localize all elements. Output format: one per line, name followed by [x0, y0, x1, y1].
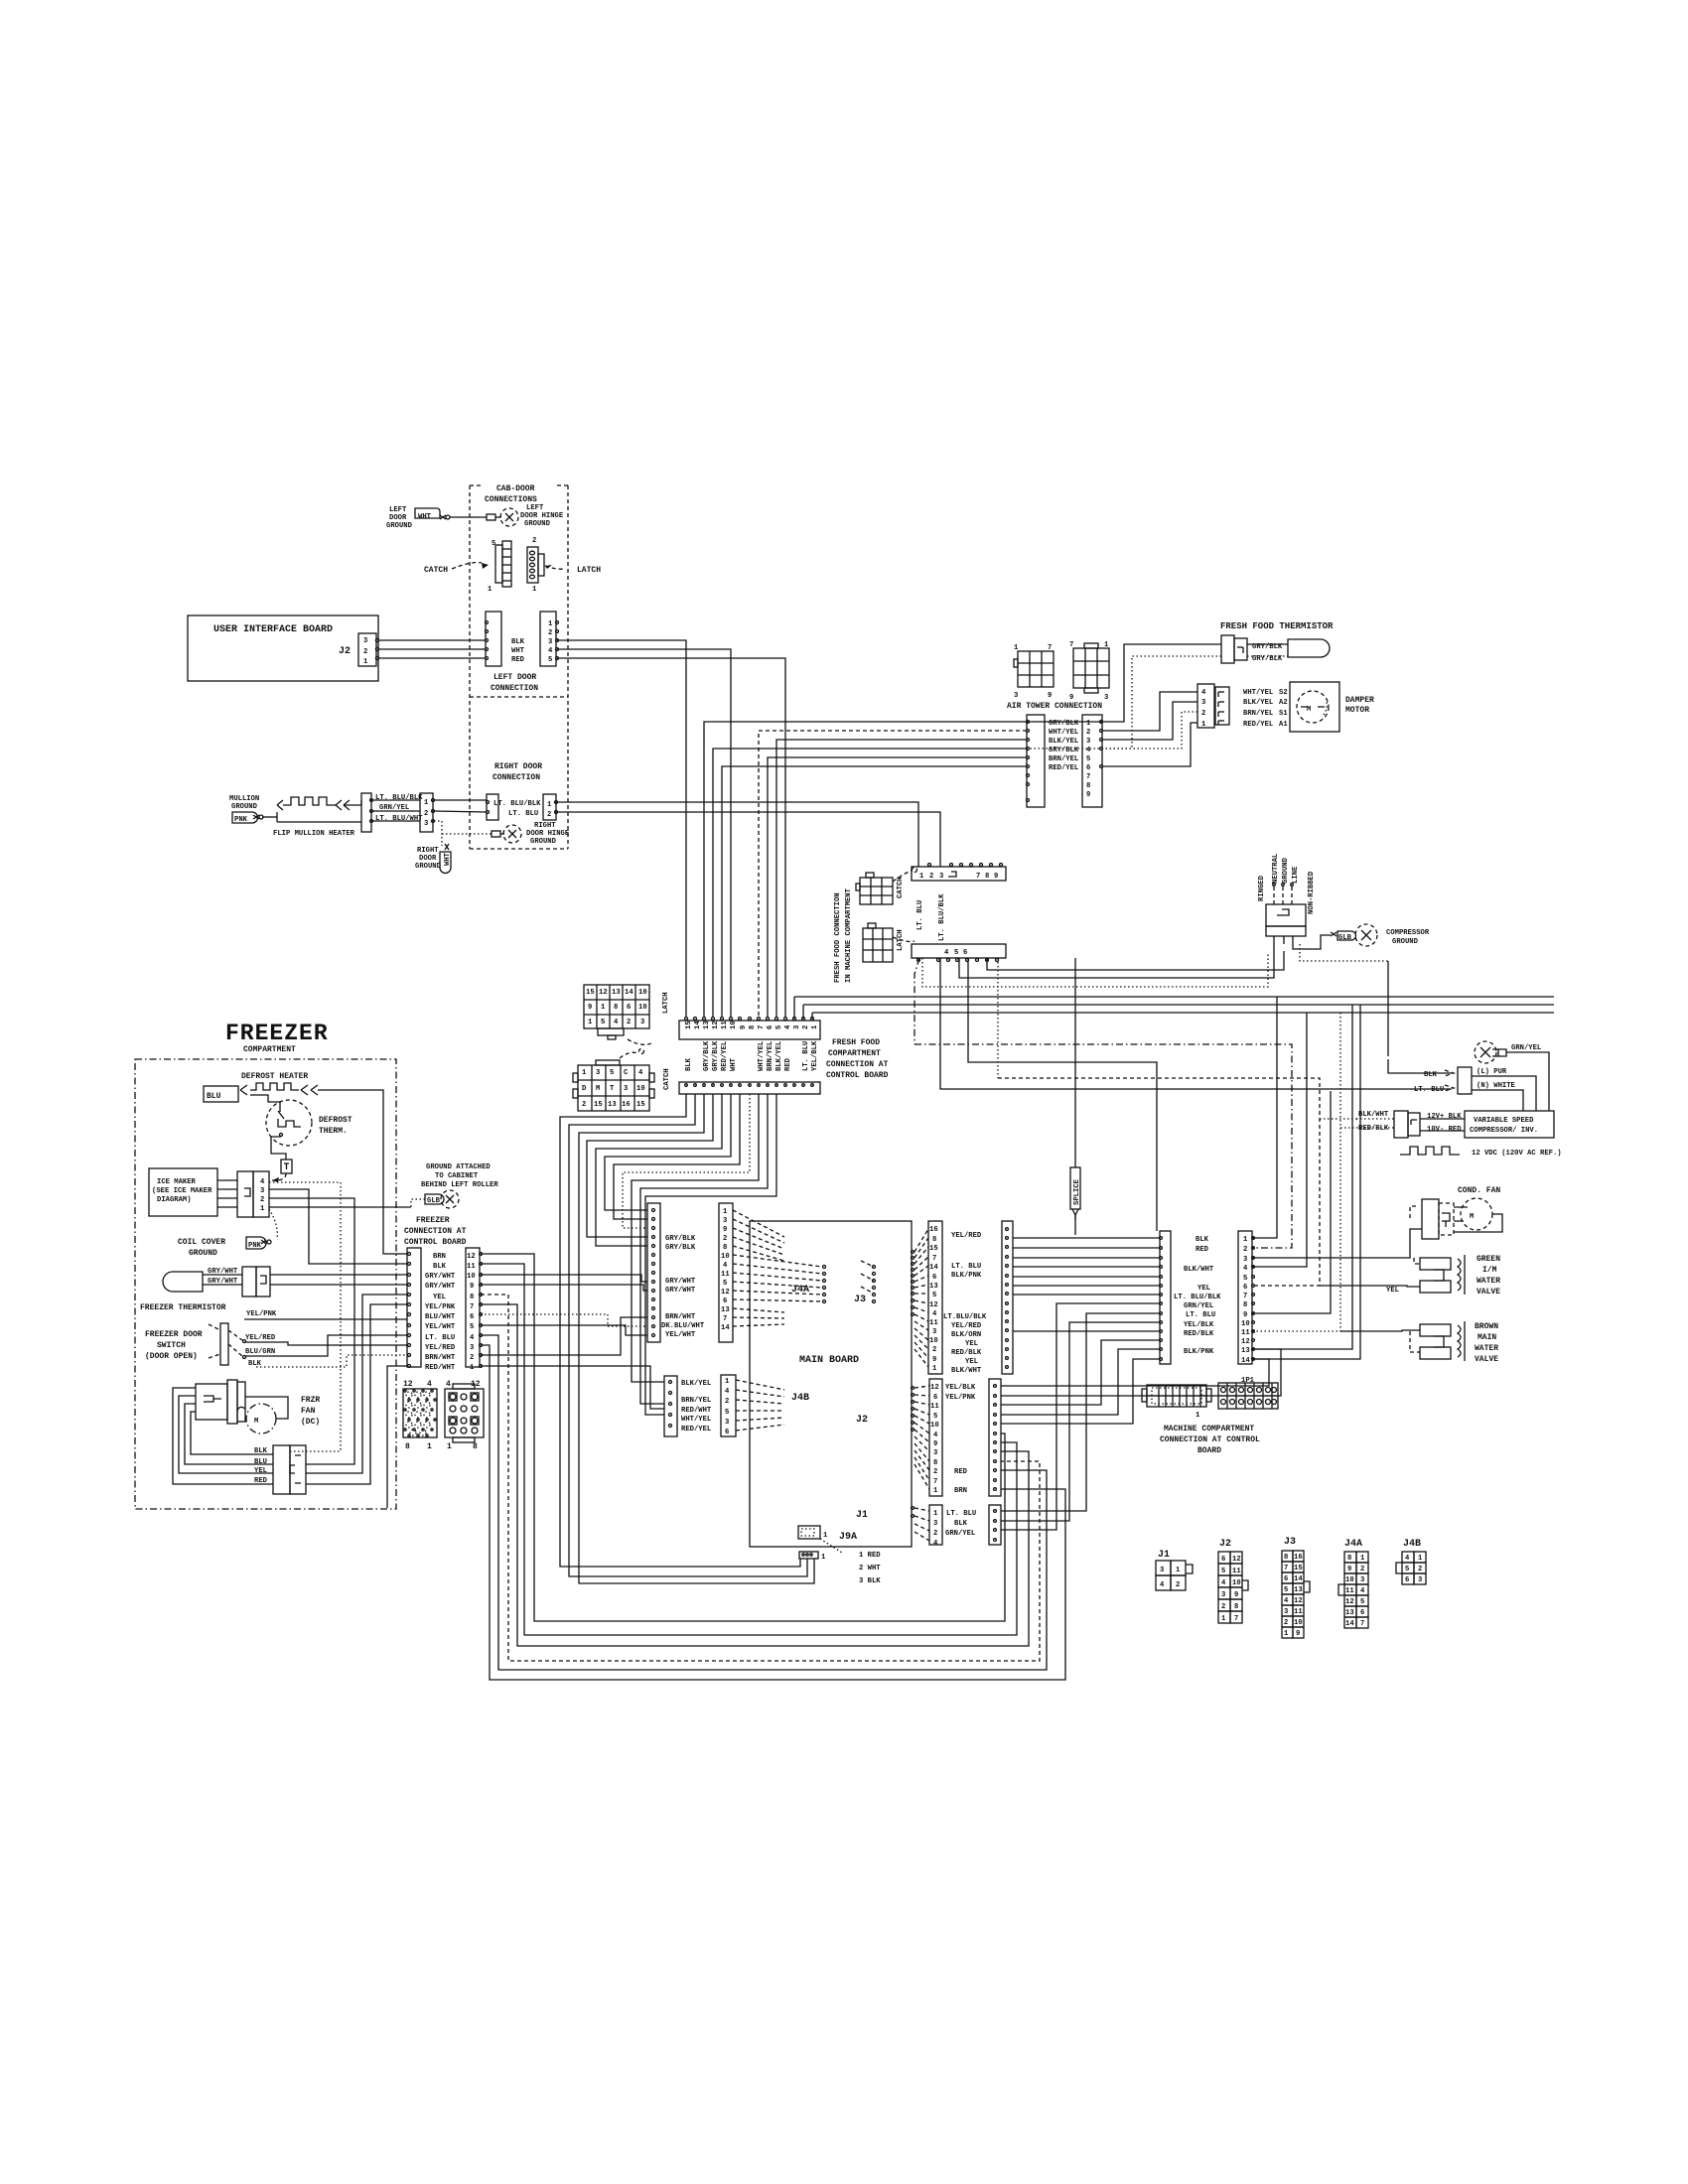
svg-text:GROUND: GROUND	[1282, 857, 1290, 884]
svg-text:RIGHT: RIGHT	[534, 822, 556, 830]
freezer strip wire row6 dotted	[481, 1314, 647, 1326]
svg-text:CATCH: CATCH	[897, 877, 905, 898]
svg-text:LT. BLU/BLK: LT. BLU/BLK	[1174, 1294, 1221, 1301]
svg-text:1: 1	[588, 1019, 593, 1026]
air tower feed wires	[704, 722, 1027, 1017]
svg-text:LT. BLU: LT. BLU	[425, 1334, 455, 1342]
stepped bundle ff pin13	[579, 1094, 814, 1583]
machine latch grid	[863, 923, 893, 962]
svg-text:LT. BLU: LT. BLU	[1414, 1086, 1444, 1094]
svg-text:2: 2	[582, 1101, 586, 1109]
brown main water valve coil	[1420, 1324, 1451, 1336]
svg-text:CAB-DOOR: CAB-DOOR	[496, 484, 535, 493]
svg-text:7: 7	[1069, 641, 1073, 649]
svg-text:3: 3	[1284, 1608, 1288, 1616]
svg-text:GRY/WHT: GRY/WHT	[208, 1268, 238, 1276]
svg-text:WHT: WHT	[418, 513, 432, 521]
wire heater pin1 to right door conn	[434, 799, 487, 801]
J2 long wires right	[1001, 1359, 1269, 1386]
svg-text:10: 10	[1232, 1579, 1241, 1587]
svg-text:7: 7	[1234, 1615, 1238, 1623]
svg-text:AIR TOWER CONNECTION: AIR TOWER CONNECTION	[1007, 702, 1102, 711]
svg-text:M: M	[254, 1418, 258, 1426]
J3 fanout	[914, 1229, 928, 1367]
freezer strip wire row12 BRN to loop	[481, 1254, 1005, 1621]
svg-text:8: 8	[405, 1442, 410, 1451]
svg-text:BRN: BRN	[433, 1253, 446, 1261]
J4B fanout	[736, 1380, 784, 1431]
svg-text:BLK: BLK	[248, 1360, 262, 1368]
svg-text:BLK/YEL: BLK/YEL	[1243, 699, 1273, 707]
ice maker connector	[237, 1171, 253, 1217]
svg-text:DOOR: DOOR	[389, 514, 407, 522]
svg-text:4: 4	[932, 1310, 937, 1318]
svg-text:4: 4	[933, 1540, 938, 1548]
svg-text:SWITCH: SWITCH	[157, 1341, 186, 1350]
svg-text:1: 1	[933, 1487, 938, 1495]
svg-text:YEL/BLK: YEL/BLK	[811, 1040, 819, 1071]
svg-text:4: 4	[1360, 1587, 1365, 1595]
svg-text:BRN/YEL: BRN/YEL	[1049, 755, 1078, 763]
stepped bundle ff pin10	[605, 1094, 731, 1210]
svg-text:RED/YEL: RED/YEL	[681, 1426, 711, 1433]
svg-text:6: 6	[1243, 1284, 1247, 1292]
stepped bundle ff pin14	[569, 1094, 807, 1576]
svg-text:J1: J1	[1158, 1550, 1170, 1561]
svg-text:GRY/WHT: GRY/WHT	[425, 1283, 456, 1291]
svg-text:2: 2	[1086, 729, 1090, 737]
right door ground lug	[440, 852, 451, 874]
svg-text:CONTROL BOARD: CONTROL BOARD	[826, 1071, 889, 1080]
svg-text:5: 5	[1405, 1566, 1409, 1573]
freezer view grid B	[445, 1380, 484, 1451]
svg-text:COMPARTMENT: COMPARTMENT	[243, 1045, 296, 1054]
svg-text:(N) WHITE: (N) WHITE	[1477, 1082, 1516, 1090]
svg-text:BLK: BLK	[433, 1263, 447, 1271]
svg-text:1: 1	[427, 1442, 432, 1451]
stepped bundle ff pin12	[587, 1094, 713, 1237]
svg-text:4: 4	[1405, 1555, 1410, 1563]
svg-text:BLK: BLK	[685, 1057, 693, 1071]
svg-text:YEL: YEL	[1197, 1285, 1210, 1293]
svg-text:BLK/YEL: BLK/YEL	[681, 1380, 711, 1388]
long line LT.BLU a	[794, 996, 1554, 998]
J2 right strip	[989, 1379, 1001, 1496]
svg-text:6: 6	[963, 949, 967, 957]
svg-text:YEL: YEL	[254, 1467, 267, 1475]
svg-text:2: 2	[532, 537, 536, 545]
svg-text:YEL/WHT: YEL/WHT	[425, 1323, 456, 1331]
svg-text:BRN/YEL: BRN/YEL	[767, 1041, 774, 1071]
stepped bundle ff pin7	[632, 1094, 759, 1382]
svg-text:6: 6	[725, 1429, 729, 1436]
svg-text:5: 5	[470, 1323, 474, 1331]
svg-text:BLK/ORN: BLK/ORN	[951, 1331, 981, 1339]
svg-text:12: 12	[930, 1384, 939, 1392]
svg-text:BLK: BLK	[954, 1520, 968, 1528]
freezer strip wire row3 to loop	[481, 1345, 1065, 1680]
wire mullion to heater	[262, 816, 277, 818]
svg-text:1 RED: 1 RED	[859, 1552, 881, 1560]
svg-text:CONNECTIONS: CONNECTIONS	[485, 495, 537, 504]
svg-text:1: 1	[1418, 1555, 1423, 1563]
svg-text:4: 4	[470, 1334, 475, 1342]
svg-text:RIGHT: RIGHT	[417, 847, 439, 855]
svg-text:6: 6	[723, 1297, 727, 1305]
J3 right strip	[1002, 1221, 1013, 1374]
svg-text:10: 10	[1345, 1576, 1354, 1584]
svg-text:4: 4	[784, 1024, 792, 1029]
stub from strip pin3	[793, 997, 795, 1019]
svg-text:MAIN BOARD: MAIN BOARD	[799, 1355, 859, 1366]
cab-door region dashed border right	[567, 485, 569, 849]
svg-text:5: 5	[775, 1025, 783, 1029]
svg-text:9: 9	[1048, 692, 1052, 700]
svg-text:3: 3	[1014, 692, 1018, 700]
svg-text:1: 1	[1014, 644, 1019, 652]
ice maker pin3 wire	[269, 1189, 407, 1264]
fresh food compartment connection strip 2	[679, 1082, 820, 1094]
svg-text:ICE MAKER: ICE MAKER	[157, 1178, 197, 1186]
svg-text:4: 4	[260, 1178, 265, 1186]
J9A connector on board	[798, 1526, 820, 1539]
svg-text:8: 8	[614, 1004, 618, 1012]
svg-text:LT. BLU: LT. BLU	[946, 1510, 976, 1518]
J3 pin strip	[928, 1221, 942, 1374]
svg-text:1: 1	[919, 873, 924, 881]
svg-text:3: 3	[640, 1019, 644, 1026]
J9A external connector	[799, 1552, 818, 1559]
svg-text:1: 1	[1196, 1412, 1200, 1420]
svg-text:LT. BLU/BLK: LT. BLU/BLK	[493, 800, 541, 808]
svg-text:9: 9	[1347, 1566, 1351, 1573]
svg-text:1: 1	[821, 1554, 826, 1562]
svg-text:THERM.: THERM.	[319, 1127, 348, 1136]
svg-text:12: 12	[712, 1021, 720, 1029]
svg-text:8: 8	[932, 1236, 936, 1244]
svg-text:MACHINE COMPARTMENT: MACHINE COMPARTMENT	[1164, 1425, 1254, 1433]
svg-text:9: 9	[588, 1004, 592, 1012]
fresh food thermistor connector	[1221, 635, 1234, 663]
freezer strip wire row4 to loop	[481, 1335, 1047, 1670]
svg-text:IN MACHINE COMPARTMENT: IN MACHINE COMPARTMENT	[845, 887, 853, 983]
svg-text:8: 8	[1284, 1554, 1288, 1562]
svg-text:4: 4	[933, 1432, 938, 1439]
svg-text:4: 4	[446, 1380, 451, 1389]
svg-text:BLK: BLK	[511, 638, 525, 646]
svg-text:LEFT: LEFT	[389, 506, 407, 514]
svg-text:YEL/RED: YEL/RED	[245, 1334, 276, 1342]
svg-text:4: 4	[1221, 1579, 1226, 1587]
svg-text:14: 14	[1294, 1575, 1303, 1583]
defrost thermostat	[266, 1100, 312, 1146]
freezer strip wire row7 to loop	[481, 1304, 1029, 1646]
svg-text:8: 8	[749, 1025, 757, 1029]
svg-text:7: 7	[1284, 1565, 1288, 1572]
svg-text:2: 2	[1243, 1246, 1247, 1254]
svg-text:BLU: BLU	[207, 1092, 221, 1101]
svg-text:BROWN: BROWN	[1475, 1322, 1498, 1331]
svg-text:4: 4	[723, 1262, 728, 1270]
flip mullion heater box	[271, 801, 361, 820]
brown valve feeds	[1340, 1330, 1420, 1331]
svg-text:GRY/BLK: GRY/BLK	[1049, 720, 1079, 728]
svg-text:1: 1	[723, 1208, 728, 1216]
svg-text:10: 10	[638, 989, 647, 997]
J2 to machine links	[1001, 1340, 1160, 1405]
svg-text:GRY/BLK: GRY/BLK	[712, 1040, 720, 1071]
svg-text:PNK: PNK	[234, 816, 248, 824]
freezer thermistor connector	[242, 1267, 256, 1297]
svg-text:11: 11	[1241, 1329, 1250, 1337]
svg-text:LT. BLU/WHT: LT. BLU/WHT	[375, 815, 423, 823]
svg-text:VARIABLE SPEED: VARIABLE SPEED	[1474, 1117, 1534, 1125]
svg-text:2: 2	[1221, 1603, 1225, 1611]
long line b	[803, 1004, 1554, 1006]
svg-text:FLIP MULLION HEATER: FLIP MULLION HEATER	[273, 830, 355, 838]
left door hinge ground terminal	[487, 514, 495, 520]
svg-text:13: 13	[929, 1283, 938, 1291]
compressor ground lug	[1331, 932, 1336, 936]
svg-text:12: 12	[1232, 1556, 1241, 1564]
svg-text:1: 1	[1221, 1615, 1226, 1623]
J1 fanout	[914, 1508, 929, 1541]
svg-text:GRY/BLK: GRY/BLK	[665, 1244, 696, 1252]
svg-text:J4A: J4A	[791, 1285, 809, 1296]
ground attached lug	[425, 1194, 444, 1204]
plug prongs	[1273, 936, 1275, 944]
svg-text:YEL/BLK: YEL/BLK	[945, 1384, 976, 1392]
svg-text:RINGED: RINGED	[1258, 875, 1266, 901]
svg-text:(SEE ICE MAKER: (SEE ICE MAKER	[152, 1187, 212, 1195]
svg-text:RED: RED	[511, 656, 525, 664]
svg-text:GROUND ATTACHED: GROUND ATTACHED	[426, 1163, 491, 1171]
svg-text:5: 5	[1243, 1275, 1247, 1283]
svg-text:1: 1	[363, 658, 368, 666]
machine strip A feeds from J3 right strip	[1013, 1237, 1160, 1239]
svg-text:J2: J2	[339, 646, 351, 657]
stepped bundle ff pin15	[560, 1094, 800, 1567]
svg-text:1: 1	[1284, 1630, 1289, 1638]
freezer strip row1 left wire	[387, 1366, 407, 1508]
catch grid (lower)	[573, 1060, 654, 1111]
right door connection connector B	[543, 794, 556, 820]
svg-text:FRZR: FRZR	[301, 1396, 320, 1405]
svg-text:9: 9	[723, 1226, 727, 1234]
svg-text:GRN/YEL: GRN/YEL	[379, 804, 409, 812]
svg-text:2: 2	[725, 1398, 729, 1406]
svg-text:BRN/WHT: BRN/WHT	[425, 1354, 456, 1362]
svg-text:2: 2	[548, 629, 552, 637]
svg-text:11: 11	[467, 1263, 476, 1271]
svg-text:2: 2	[933, 1530, 937, 1538]
svg-text:11: 11	[1294, 1608, 1303, 1616]
svg-text:BLK/YEL: BLK/YEL	[1049, 738, 1078, 746]
ice maker pin2 wire	[269, 1198, 354, 1278]
svg-text:J2: J2	[856, 1415, 868, 1426]
svg-text:COND. FAN: COND. FAN	[1458, 1186, 1500, 1195]
svg-text:11: 11	[721, 1271, 730, 1279]
svg-text:LT. BLU: LT. BLU	[802, 1041, 810, 1071]
svg-text:10: 10	[467, 1273, 476, 1281]
svg-text:7: 7	[933, 1478, 937, 1486]
svg-text:11: 11	[721, 1021, 729, 1029]
svg-text:RED: RED	[1196, 1246, 1209, 1254]
svg-text:16: 16	[622, 1101, 631, 1109]
svg-text:CONNECTION AT: CONNECTION AT	[404, 1227, 467, 1236]
svg-text:DOOR: DOOR	[419, 855, 437, 863]
right door connection connector A	[487, 794, 498, 820]
air tower strip A	[1027, 715, 1045, 807]
svg-text:12V+ BLK: 12V+ BLK	[1427, 1113, 1462, 1121]
svg-text:6: 6	[1405, 1576, 1409, 1584]
svg-text:WHT: WHT	[444, 852, 452, 866]
svg-text:YEL: YEL	[1386, 1287, 1399, 1295]
svg-text:10: 10	[730, 1021, 738, 1029]
svg-text:YEL/WHT: YEL/WHT	[665, 1331, 696, 1339]
user interface board	[188, 615, 378, 681]
svg-text:9: 9	[1086, 791, 1090, 799]
svg-text:8: 8	[985, 873, 989, 881]
svg-text:J4A: J4A	[1344, 1539, 1362, 1550]
cond fan connector	[1422, 1199, 1439, 1239]
machine strip B verticals from top	[1252, 997, 1277, 1238]
svg-text:LT. BLU: LT. BLU	[916, 900, 924, 930]
svg-text:5: 5	[1086, 755, 1090, 763]
svg-text:WHT/YEL: WHT/YEL	[1243, 689, 1273, 697]
svg-text:YEL/RED: YEL/RED	[951, 1232, 982, 1240]
J9A dashed pointer	[820, 1539, 842, 1553]
svg-text:FREEZER: FREEZER	[225, 1021, 329, 1046]
svg-text:J3: J3	[854, 1295, 866, 1305]
svg-text:DOOR HINGE: DOOR HINGE	[520, 512, 564, 520]
compressor feed wires	[1472, 1076, 1536, 1111]
svg-text:6: 6	[932, 1274, 936, 1282]
svg-text:NEUTRAL: NEUTRAL	[1272, 854, 1280, 884]
thermistor wires	[1247, 643, 1288, 645]
svg-text:RED/WHT: RED/WHT	[425, 1364, 456, 1372]
svg-text:BLU: BLU	[254, 1458, 267, 1466]
fuse to ice pin dashed	[272, 1173, 286, 1180]
wire J2-1	[378, 657, 486, 659]
divider between left/right door connection	[470, 696, 568, 698]
svg-text:14: 14	[694, 1021, 702, 1029]
svg-text:11: 11	[1232, 1568, 1241, 1575]
svg-text:CONNECTION AT: CONNECTION AT	[826, 1060, 889, 1069]
svg-text:GRN/YEL: GRN/YEL	[1511, 1044, 1541, 1052]
splice wire down	[1074, 1215, 1076, 1220]
svg-text:14: 14	[721, 1324, 730, 1332]
svg-text:DIAGRAM): DIAGRAM)	[157, 1196, 192, 1204]
svg-text:BOARD: BOARD	[1197, 1446, 1221, 1455]
fan connector	[273, 1445, 290, 1494]
yel wire to green valve	[1320, 1286, 1420, 1287]
svg-text:COIL COVER: COIL COVER	[178, 1238, 225, 1247]
freezer view grid A	[403, 1380, 437, 1451]
machine strip A	[1160, 1231, 1171, 1364]
lt.blu strip 2	[912, 944, 1006, 958]
svg-text:RED/YEL: RED/YEL	[1243, 721, 1273, 729]
splice wire	[1074, 958, 1076, 1167]
svg-text:4: 4	[944, 949, 949, 957]
svg-text:RIGHT DOOR: RIGHT DOOR	[494, 762, 542, 771]
svg-text:2: 2	[1360, 1566, 1364, 1573]
svg-text:6: 6	[933, 1394, 937, 1402]
svg-text:4: 4	[427, 1380, 432, 1389]
svg-text:4: 4	[725, 1388, 730, 1396]
svg-text:GRY/WHT: GRY/WHT	[208, 1278, 238, 1286]
svg-text:2: 2	[929, 873, 933, 881]
compressor ground wire	[1293, 935, 1331, 949]
svg-text:10: 10	[1294, 1619, 1303, 1627]
svg-text:COMPRESSOR/ INV.: COMPRESSOR/ INV.	[1470, 1127, 1538, 1135]
svg-text:BLK/YEL: BLK/YEL	[775, 1041, 783, 1071]
svg-text:GLB: GLB	[1338, 934, 1352, 942]
svg-text:15: 15	[1294, 1565, 1303, 1572]
svg-text:2 WHT: 2 WHT	[859, 1565, 881, 1572]
svg-text:1: 1	[260, 1205, 265, 1213]
wire heater pin3 dotted to right door ground	[434, 821, 442, 846]
svg-text:9: 9	[1069, 694, 1073, 702]
svg-text:3: 3	[725, 1419, 729, 1427]
svg-text:13: 13	[608, 1101, 617, 1109]
svg-text:7: 7	[976, 873, 980, 881]
svg-text:10V- RED: 10V- RED	[1427, 1126, 1462, 1134]
svg-text:7: 7	[1086, 773, 1090, 781]
svg-text:RED: RED	[954, 1468, 968, 1476]
J1 right strip	[989, 1505, 1001, 1545]
svg-text:12: 12	[1241, 1338, 1250, 1346]
svg-text:LT. BLU: LT. BLU	[1186, 1311, 1215, 1319]
svg-text:4: 4	[1201, 689, 1206, 697]
svg-text:2: 2	[363, 648, 367, 656]
left door connection connector B	[540, 612, 556, 666]
svg-text:7: 7	[470, 1303, 474, 1311]
ice maker pin1 ground wire	[269, 1206, 411, 1208]
wire J2-3	[378, 639, 486, 641]
svg-text:13: 13	[1241, 1347, 1250, 1355]
svg-text:4: 4	[614, 1019, 619, 1026]
svg-text:SPLICE: SPLICE	[1073, 1178, 1081, 1205]
svg-text:S1: S1	[1279, 710, 1288, 718]
wire left door pin4 WHT	[557, 649, 731, 1017]
svg-text:3: 3	[596, 1069, 600, 1077]
svg-text:GREEN: GREEN	[1477, 1255, 1500, 1264]
freezer strip wire row9 GRY/WHT to J4A	[481, 1285, 647, 1291]
svg-text:3: 3	[424, 820, 428, 828]
svg-text:11: 11	[1345, 1587, 1354, 1595]
svg-text:10: 10	[638, 1004, 647, 1012]
svg-text:15: 15	[636, 1101, 645, 1109]
air tower grid connector B	[1069, 641, 1109, 702]
svg-text:BRN: BRN	[954, 1487, 967, 1495]
svg-text:12: 12	[403, 1380, 413, 1389]
svg-text:2: 2	[802, 1025, 810, 1029]
ground attached dotted wire	[411, 1199, 425, 1207]
svg-text:5: 5	[723, 1280, 727, 1288]
svg-text:9: 9	[1243, 1311, 1247, 1319]
svg-text:A2: A2	[1279, 699, 1288, 707]
svg-text:DOOR HINGE: DOOR HINGE	[526, 830, 570, 838]
svg-text:3: 3	[933, 1449, 937, 1457]
thermistor wire left dotted	[1027, 656, 1221, 749]
freezer strip wire row10 GRY/WHT to J4A	[481, 1275, 647, 1282]
svg-text:7: 7	[758, 1025, 766, 1029]
svg-text:LATCH: LATCH	[662, 992, 670, 1014]
svg-text:MULLION: MULLION	[229, 795, 259, 803]
svg-text:5: 5	[1360, 1598, 1364, 1606]
J4A pin strip	[719, 1203, 733, 1342]
